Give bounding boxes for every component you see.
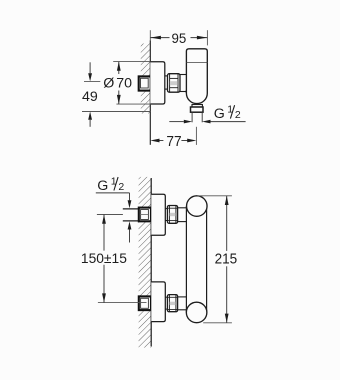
nut groove bottom <box>170 87 178 89</box>
centerline dash in top square <box>140 214 148 216</box>
svg-text:G: G <box>97 178 108 194</box>
arrow 77 left <box>150 139 159 143</box>
valve body with dome bottom <box>186 63 207 104</box>
nut facet line left <box>169 74 171 92</box>
dimension 150±15 extension bottom <box>98 302 147 304</box>
dimension Ø70 extension top <box>113 61 150 63</box>
nut groove top <box>170 77 178 79</box>
top ball <box>187 196 208 217</box>
arrow down at pipe top <box>128 200 132 208</box>
wall face line <box>150 178 152 347</box>
arrow 95 right <box>197 36 208 40</box>
square fitting bottom (bold) <box>139 296 151 310</box>
flange bottom <box>151 282 165 322</box>
arrow 215 down <box>225 314 229 323</box>
arrow right-pointing at pipe left <box>184 120 192 124</box>
junction dot <box>185 90 187 92</box>
wall band hatch segment 1 <box>139 177 152 208</box>
supply pipe top <box>123 209 140 221</box>
dimension 49 extension top <box>84 80 100 82</box>
svg-text:Ø: Ø <box>103 76 114 92</box>
outlet pipe <box>191 112 193 122</box>
svg-text:95: 95 <box>172 31 187 47</box>
svg-text:2: 2 <box>118 181 124 193</box>
dimension 215 extension top <box>197 195 232 197</box>
nut bottom <box>167 295 177 312</box>
svg-text:G: G <box>214 106 225 122</box>
nut top <box>167 206 177 224</box>
body bar edges <box>185 206 187 312</box>
Ø70 dim line segments <box>118 62 120 74</box>
nut chamfer shading <box>170 81 178 85</box>
G1/2 underline right <box>211 121 246 123</box>
extension line 95 right <box>206 30 208 45</box>
svg-text:2: 2 <box>235 109 241 121</box>
union nut side view <box>168 74 181 93</box>
dimension Ø70 extension bottom <box>116 103 150 105</box>
flange escutcheon side view <box>150 62 165 104</box>
49 lower outside arrow <box>88 112 92 120</box>
outlet ring <box>192 105 202 108</box>
arrow 95 left <box>150 36 161 40</box>
dimension 77 <box>159 140 163 142</box>
connector top <box>178 207 187 209</box>
square fitting top (bold) <box>139 208 151 222</box>
connector nut to body <box>180 74 187 76</box>
dimension 95 line <box>150 37 169 39</box>
arrow 150 down <box>102 293 106 302</box>
lower arrow stem <box>129 230 131 243</box>
square supply fitting in wall (bold) <box>139 76 151 90</box>
connector bottom <box>178 296 187 298</box>
stub top <box>165 208 167 210</box>
arrow 215 up <box>225 196 229 205</box>
wall line <box>149 40 151 145</box>
arrow 77 right <box>187 139 196 143</box>
G1/2 leader underline <box>96 192 130 194</box>
outlet nipple <box>191 107 204 112</box>
150 dim line segments <box>103 215 105 251</box>
wall band hatch segment 2 <box>139 221 152 296</box>
49 upper outside arrow <box>89 62 91 73</box>
dimension 215 extension bottom <box>203 322 232 324</box>
svg-text:70: 70 <box>116 76 132 92</box>
stub bottom <box>165 296 167 298</box>
215 dim line segments <box>226 196 228 251</box>
valve body push cap <box>186 49 207 63</box>
leader stem down <box>129 193 131 201</box>
flange top <box>151 194 165 235</box>
wall hatching lower segment <box>141 91 151 114</box>
arrow Ø70 up <box>117 62 121 71</box>
dimension 150±15 extension top <box>97 214 123 216</box>
stub between flange and nut <box>165 75 168 77</box>
bottom ball <box>186 302 207 323</box>
cap divider line <box>186 62 207 64</box>
arrow Ø70 down <box>117 95 121 104</box>
extension line 95 left <box>149 30 151 40</box>
svg-text:77: 77 <box>166 134 181 150</box>
wall band hatch segment 3 <box>139 310 152 348</box>
pipe centerline <box>195 127 197 145</box>
svg-text:215: 215 <box>215 251 238 267</box>
dimension G1/2 top drawing left line <box>169 121 184 123</box>
svg-text:150±15: 150±15 <box>81 251 127 267</box>
nut facet line right <box>177 74 179 92</box>
arrow 150 up <box>102 215 106 224</box>
arrow up at pipe bottom <box>128 221 132 229</box>
square fitting inner <box>141 78 149 88</box>
svg-text:49: 49 <box>82 89 98 105</box>
wall hatching upper segment <box>141 44 151 77</box>
arrow left-pointing at pipe right <box>202 120 210 124</box>
dimension 49 extension bottom <box>82 111 150 113</box>
